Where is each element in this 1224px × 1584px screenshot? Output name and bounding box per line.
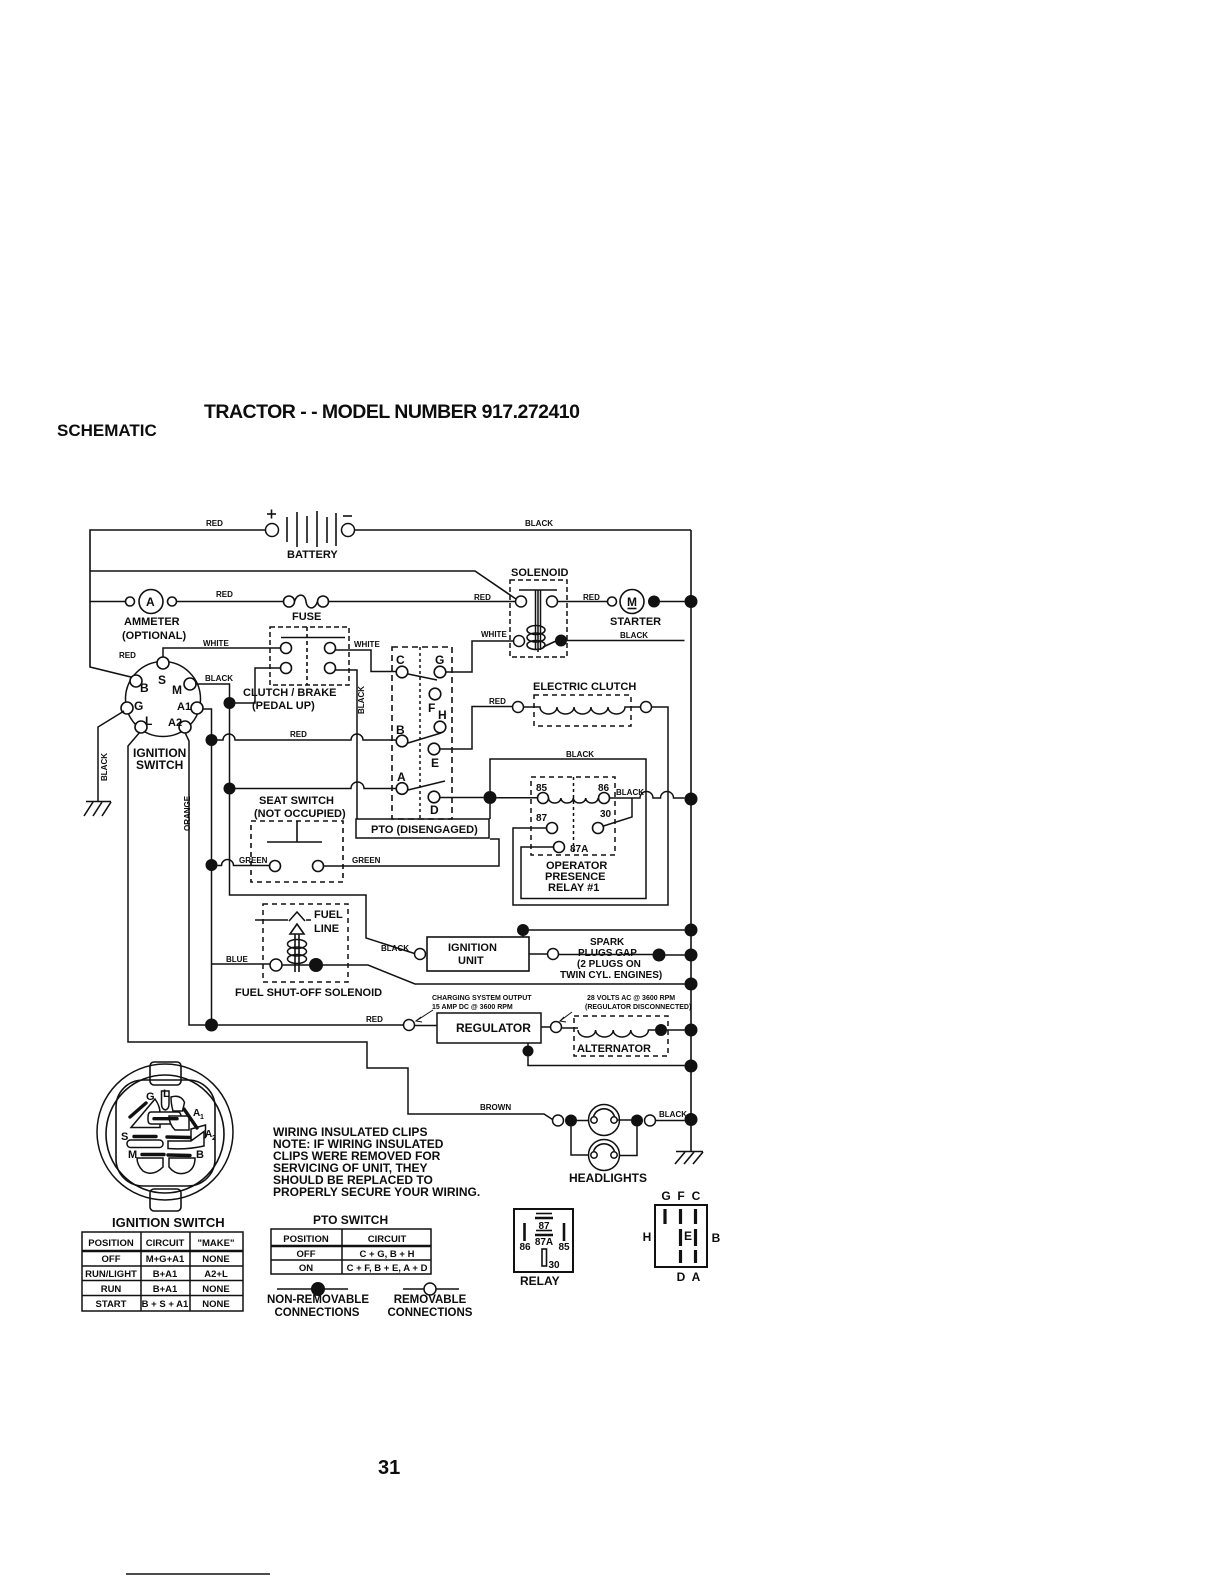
svg-text:PROPERLY SECURE YOUR WIRING.: PROPERLY SECURE YOUR WIRING. xyxy=(273,1185,480,1199)
svg-text:RED: RED xyxy=(119,651,136,660)
svg-text:30: 30 xyxy=(600,809,612,820)
svg-text:A: A xyxy=(397,770,406,784)
svg-text:GREEN: GREEN xyxy=(239,856,268,865)
svg-text:1: 1 xyxy=(200,1114,204,1121)
svg-text:87A: 87A xyxy=(570,844,588,855)
svg-text:B: B xyxy=(396,723,405,737)
svg-text:B: B xyxy=(196,1149,204,1161)
svg-text:87: 87 xyxy=(536,813,548,824)
svg-text:SPARK: SPARK xyxy=(590,937,625,948)
svg-text:IGNITION: IGNITION xyxy=(448,942,497,954)
svg-text:WHITE: WHITE xyxy=(481,630,507,639)
svg-text:UNIT: UNIT xyxy=(458,955,484,967)
svg-text:2: 2 xyxy=(212,1135,216,1142)
svg-text:SOLENOID: SOLENOID xyxy=(511,567,569,579)
svg-text:SWITCH: SWITCH xyxy=(136,758,183,772)
svg-text:POSITION: POSITION xyxy=(88,1238,134,1249)
svg-text:BLACK: BLACK xyxy=(620,631,648,640)
svg-text:"MAKE": "MAKE" xyxy=(198,1238,235,1249)
svg-text:BLACK: BLACK xyxy=(100,753,109,781)
svg-text:OFF: OFF xyxy=(297,1249,316,1260)
svg-text:FUSE: FUSE xyxy=(292,611,321,623)
svg-text:A1: A1 xyxy=(177,701,191,713)
svg-text:REGULATOR: REGULATOR xyxy=(456,1021,531,1035)
svg-text:A: A xyxy=(146,595,155,609)
svg-text:HEADLIGHTS: HEADLIGHTS xyxy=(569,1171,647,1185)
svg-text:86: 86 xyxy=(519,1242,531,1253)
svg-text:31: 31 xyxy=(378,1457,400,1479)
svg-text:85: 85 xyxy=(558,1242,570,1253)
svg-text:BLUE: BLUE xyxy=(226,955,248,964)
svg-text:RELAY #1: RELAY #1 xyxy=(548,882,599,894)
svg-text:RED: RED xyxy=(206,519,223,528)
svg-text:H: H xyxy=(438,708,447,722)
svg-text:PTO (DISENGAGED): PTO (DISENGAGED) xyxy=(371,824,478,836)
svg-text:OFF: OFF xyxy=(102,1254,121,1265)
svg-text:BLACK: BLACK xyxy=(205,674,233,683)
svg-text:BLACK: BLACK xyxy=(616,788,644,797)
svg-text:30: 30 xyxy=(548,1260,560,1271)
svg-text:28 VOLTS AC @ 3600 RPM: 28 VOLTS AC @ 3600 RPM xyxy=(587,995,675,1002)
svg-text:ON: ON xyxy=(299,1263,313,1274)
svg-text:E: E xyxy=(684,1229,692,1243)
svg-text:NONE: NONE xyxy=(202,1254,229,1265)
svg-text:A2+L: A2+L xyxy=(204,1269,228,1280)
svg-text:BLACK: BLACK xyxy=(381,944,409,953)
svg-text:E: E xyxy=(431,756,439,770)
svg-text:CIRCUIT: CIRCUIT xyxy=(368,1234,407,1245)
svg-text:L: L xyxy=(145,714,152,728)
svg-text:RED: RED xyxy=(216,590,233,599)
svg-text:BLACK: BLACK xyxy=(525,519,553,528)
svg-text:(NOT OCCUPIED): (NOT OCCUPIED) xyxy=(254,808,346,820)
svg-text:NON-REMOVABLE: NON-REMOVABLE xyxy=(267,1294,369,1306)
svg-text:CONNECTIONS: CONNECTIONS xyxy=(388,1307,473,1319)
svg-text:ALTERNATOR: ALTERNATOR xyxy=(577,1043,651,1055)
svg-text:C + F, B + E, A + D: C + F, B + E, A + D xyxy=(347,1263,428,1274)
svg-text:RELAY: RELAY xyxy=(520,1274,560,1288)
svg-text:(REGULATOR DISCONNECTED): (REGULATOR DISCONNECTED) xyxy=(585,1004,691,1011)
svg-text:PLUGS GAP: PLUGS GAP xyxy=(578,948,637,959)
svg-text:RED: RED xyxy=(290,730,307,739)
svg-text:BROWN: BROWN xyxy=(480,1103,511,1112)
svg-text:M: M xyxy=(627,595,637,609)
svg-text:L: L xyxy=(163,1088,170,1100)
svg-text:IGNITION SWITCH: IGNITION SWITCH xyxy=(112,1215,225,1230)
svg-text:F: F xyxy=(428,701,435,715)
svg-text:(2 PLUGS ON: (2 PLUGS ON xyxy=(577,959,641,970)
svg-text:B: B xyxy=(712,1231,721,1245)
svg-text:RUN: RUN xyxy=(101,1284,122,1295)
svg-text:A2: A2 xyxy=(168,717,182,729)
svg-text:FUEL SHUT-OFF SOLENOID: FUEL SHUT-OFF SOLENOID xyxy=(235,987,382,999)
svg-text:REMOVABLE: REMOVABLE xyxy=(394,1294,467,1306)
svg-text:WHITE: WHITE xyxy=(203,639,229,648)
svg-text:C: C xyxy=(396,653,405,667)
svg-text:B: B xyxy=(140,681,149,695)
svg-text:G: G xyxy=(661,1189,670,1203)
svg-text:CIRCUIT: CIRCUIT xyxy=(146,1238,185,1249)
svg-text:85: 85 xyxy=(536,783,548,794)
svg-text:87: 87 xyxy=(538,1221,550,1232)
svg-text:15 AMP DC @ 3600 RPM: 15 AMP DC @ 3600 RPM xyxy=(432,1004,513,1011)
svg-text:WHITE: WHITE xyxy=(354,640,380,649)
svg-text:NONE: NONE xyxy=(202,1299,229,1310)
svg-text:H: H xyxy=(643,1230,652,1244)
svg-text:C: C xyxy=(692,1189,701,1203)
svg-text:M: M xyxy=(172,683,182,697)
svg-text:STARTER: STARTER xyxy=(610,616,661,628)
svg-text:(OPTIONAL): (OPTIONAL) xyxy=(122,630,186,642)
svg-text:CLUTCH / BRAKE: CLUTCH / BRAKE xyxy=(243,687,337,699)
svg-text:S: S xyxy=(158,673,166,687)
svg-text:(PEDAL UP): (PEDAL UP) xyxy=(252,700,315,712)
svg-text:NONE: NONE xyxy=(202,1284,229,1295)
svg-text:B+A1: B+A1 xyxy=(153,1284,178,1295)
svg-text:D: D xyxy=(677,1270,686,1284)
svg-text:FUEL: FUEL xyxy=(314,909,343,921)
svg-text:TWIN CYL. ENGINES): TWIN CYL. ENGINES) xyxy=(560,970,662,981)
svg-text:M+G+A1: M+G+A1 xyxy=(146,1254,185,1265)
svg-text:G: G xyxy=(146,1091,155,1103)
svg-text:BLACK: BLACK xyxy=(566,750,594,759)
svg-text:AMMETER: AMMETER xyxy=(124,616,180,628)
svg-text:RUN/LIGHT: RUN/LIGHT xyxy=(85,1269,137,1280)
svg-text:S: S xyxy=(121,1131,128,1143)
svg-text:SCHEMATIC: SCHEMATIC xyxy=(57,421,157,440)
svg-text:START: START xyxy=(96,1299,127,1310)
svg-text:ELECTRIC CLUTCH: ELECTRIC CLUTCH xyxy=(533,681,636,693)
svg-text:87A: 87A xyxy=(535,1237,553,1248)
svg-text:BLACK: BLACK xyxy=(659,1110,687,1119)
svg-text:RED: RED xyxy=(489,697,506,706)
svg-text:B+A1: B+A1 xyxy=(153,1269,178,1280)
svg-text:A: A xyxy=(692,1270,701,1284)
svg-text:RED: RED xyxy=(583,593,600,602)
svg-text:PTO SWITCH: PTO SWITCH xyxy=(313,1213,388,1227)
svg-text:G: G xyxy=(134,699,143,713)
svg-text:G: G xyxy=(435,653,444,667)
svg-text:POSITION: POSITION xyxy=(283,1234,329,1245)
svg-text:M: M xyxy=(128,1149,137,1161)
svg-text:C + G, B + H: C + G, B + H xyxy=(360,1249,415,1260)
svg-text:RED: RED xyxy=(474,593,491,602)
svg-text:CHARGING SYSTEM OUTPUT: CHARGING SYSTEM OUTPUT xyxy=(432,995,532,1002)
svg-text:SEAT SWITCH: SEAT SWITCH xyxy=(259,795,334,807)
svg-text:TRACTOR - - MODEL NUMBER 917.: TRACTOR - - MODEL NUMBER 917.272410 xyxy=(204,401,580,423)
svg-text:86: 86 xyxy=(598,783,610,794)
svg-text:BATTERY: BATTERY xyxy=(287,549,338,561)
svg-text:GREEN: GREEN xyxy=(352,856,381,865)
svg-text:RED: RED xyxy=(366,1015,383,1024)
svg-text:F: F xyxy=(677,1189,684,1203)
svg-text:ORANGE: ORANGE xyxy=(183,795,192,831)
svg-text:LINE: LINE xyxy=(314,923,339,935)
svg-text:BLACK: BLACK xyxy=(357,686,366,714)
svg-text:CONNECTIONS: CONNECTIONS xyxy=(275,1307,360,1319)
svg-text:D: D xyxy=(430,803,439,817)
svg-text:B + S + A1: B + S + A1 xyxy=(142,1299,189,1310)
